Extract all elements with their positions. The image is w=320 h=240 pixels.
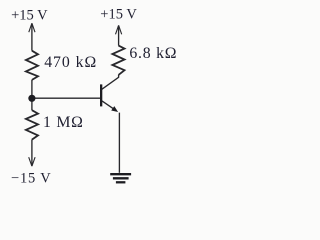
svg-text:−15 V: −15 V	[11, 171, 52, 187]
svg-text:+15 V: +15 V	[11, 7, 48, 23]
svg-text:+15 V: +15 V	[100, 6, 137, 22]
svg-text:6.8 kΩ: 6.8 kΩ	[129, 45, 177, 62]
svg-text:470 kΩ: 470 kΩ	[44, 54, 97, 71]
svg-text:1 MΩ: 1 MΩ	[43, 114, 84, 131]
